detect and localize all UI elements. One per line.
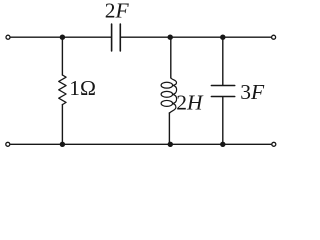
terminal bottom-left (6, 142, 10, 146)
resistor R 1ohm branch wire bottom (61, 105, 63, 145)
junction dot top resistor (60, 35, 65, 40)
capacitor C 2F right plate (119, 24, 121, 51)
svg-text:2H: 2H (176, 91, 204, 115)
inductor L 2H (coil of 3 loops with lead wires) (161, 37, 177, 144)
terminal top-left (6, 35, 10, 39)
capacitor C 3F branch wire top (222, 37, 224, 85)
resistor R 1ohm zigzag (59, 75, 66, 105)
junction dot bottom resistor (60, 142, 65, 147)
capacitor C 3F branch wire bottom (222, 97, 224, 144)
svg-text:3F: 3F (240, 80, 265, 104)
capacitor C 3F top plate (211, 85, 234, 87)
wire bottom (11, 143, 271, 145)
capacitor C 3F bottom plate (211, 96, 234, 98)
wire top-right segment (121, 36, 271, 38)
capacitor C 2F left plate (111, 24, 113, 51)
wire top-left segment (11, 36, 111, 38)
junction dot bottom inductor (168, 142, 173, 147)
junction dot top inductor (168, 35, 173, 40)
svg-text:2F: 2F (105, 0, 130, 23)
junction dot bottom capacitor3F (220, 142, 225, 147)
svg-text:1Ω: 1Ω (69, 76, 96, 100)
terminal top-right (272, 35, 276, 39)
terminal bottom-right (272, 142, 276, 146)
junction dot top capacitor3F (220, 35, 225, 40)
resistor R 1ohm vertical branch wire top (61, 37, 63, 75)
